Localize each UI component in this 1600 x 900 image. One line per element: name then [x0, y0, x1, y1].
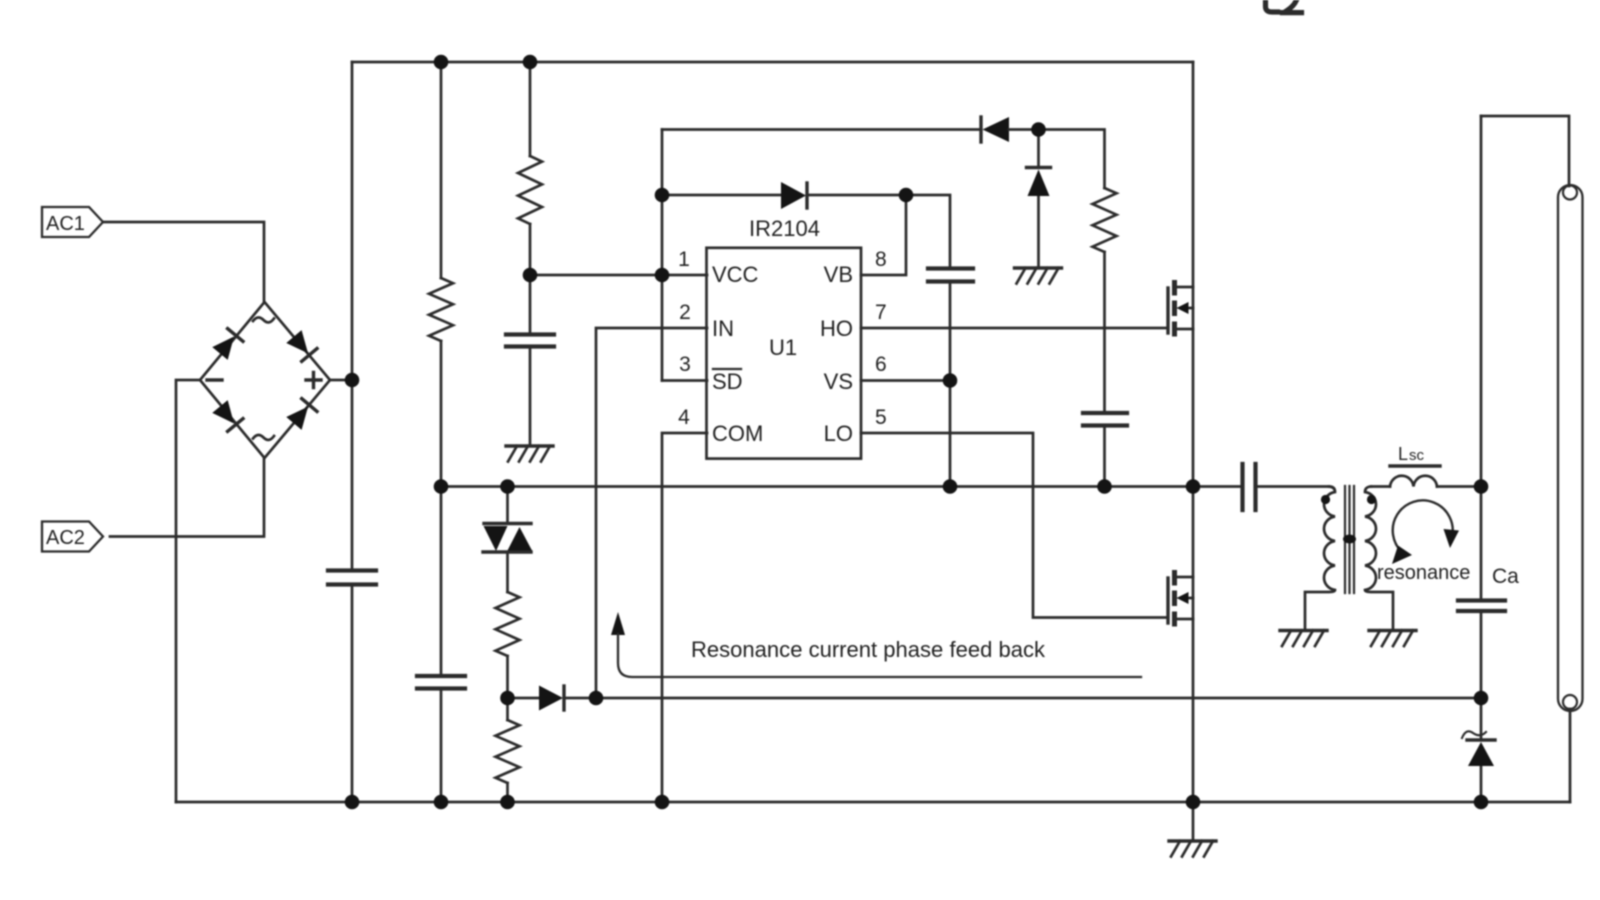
svg-text:VS: VS [824, 369, 853, 394]
bridge AC mark bottom [253, 435, 274, 440]
wire secondary to Lsc [1371, 485, 1390, 488]
node junction at 1193,486.5 [1186, 479, 1201, 494]
wire pin6 VS stub [861, 379, 950, 382]
wire pin4 COM down to ground rail [662, 433, 707, 802]
svg-text:SD: SD [712, 369, 743, 394]
node junction at 1104.5,486.5 [1097, 479, 1112, 494]
bridge diode upper-left [212, 329, 243, 360]
capacitor C5 [1083, 413, 1127, 426]
node junction at 906,195 [899, 188, 914, 203]
wire feedback line y698 [564, 697, 1481, 700]
wire node to D3 [508, 697, 539, 700]
ground below bottom rail [1169, 839, 1216, 842]
wire DIAC to R4 [506, 552, 509, 592]
svg-text:resonance: resonance [1377, 562, 1470, 584]
svg-text:VCC: VCC [712, 262, 759, 287]
wire bootstrap upper loop y129 [662, 128, 981, 131]
wire pin7 HO to M1 gate [861, 327, 1168, 330]
wire C6 to transformer primary [1256, 485, 1329, 488]
ground below Z1 [1015, 266, 1062, 269]
wire D1 to VB node and C4 [807, 195, 950, 487]
bridge plus mark [306, 373, 321, 388]
resistor R4 [496, 592, 520, 656]
zener diode Z2 (points up, curled bar) [1467, 738, 1495, 741]
wire bottom ground rail [176, 801, 1570, 804]
node junction at 1193,802 [1186, 795, 1201, 810]
node junction at 441,802 [434, 795, 449, 810]
wire R5 to bottom rail [506, 783, 509, 802]
wire VCC node to pin 1 [530, 274, 707, 277]
wire pin2 IN [596, 328, 707, 698]
bridge diode lower-left [212, 400, 243, 431]
DIAC D4 [483, 524, 531, 553]
wire y195 from x662 to D1 [662, 194, 781, 197]
transistor Q1 high-side MOSFET [1166, 288, 1169, 333]
svg-text:1: 1 [678, 248, 690, 271]
wire D2 to corner and down to R3 [1009, 130, 1105, 189]
svg-text:U1: U1 [769, 335, 797, 360]
svg-text:7: 7 [875, 301, 887, 324]
wire VCC node down to C3 [529, 275, 532, 446]
svg-text:4: 4 [678, 406, 690, 429]
wire x441 upper [440, 62, 443, 278]
node junction at 1481,802 [1474, 795, 1489, 810]
svg-text:2: 2 [679, 301, 691, 324]
inductor Lsc [1390, 476, 1437, 487]
node junction at 950,380.5 [943, 373, 958, 388]
node junction at 441,62 [434, 55, 449, 70]
transformer T1 secondary winding [1365, 487, 1393, 631]
wire x662 vertical upper (VCC/SD/bootstrap node) [661, 130, 664, 381]
feedback arrow (curved, pointing up) [611, 612, 625, 635]
node junction at 507.5,486.5 [500, 479, 515, 494]
capacitor C2 [417, 676, 465, 689]
wire pin3 SD stub [662, 379, 707, 382]
capacitor C4 bootstrap [928, 269, 973, 282]
lamp electrode top [1563, 186, 1577, 200]
capacitor C6 coupling [1243, 464, 1256, 510]
wire pin8 VB stub [861, 195, 906, 275]
node junction at 352,380 [345, 373, 360, 388]
svg-text:COM: COM [712, 421, 763, 446]
node junction at 530,275 [523, 268, 538, 283]
transformer T1 core [1345, 486, 1354, 593]
node junction at 507.5,802 [500, 795, 515, 810]
svg-text:8: 8 [875, 248, 887, 271]
wire pin5 LO to M2 gate [861, 433, 1168, 618]
wire bridge minus to bottom rail [176, 380, 200, 802]
node junction at 950,486.5 [943, 479, 958, 494]
svg-text:3: 3 [679, 353, 691, 376]
wire Lsc to lamp node [1437, 485, 1481, 488]
node junction at 530,62 [523, 55, 538, 70]
wire DC rail vertical x352 [351, 62, 354, 802]
transformer T1 secondary phase dot [1367, 495, 1376, 504]
bridge minus mark [207, 378, 222, 381]
wire mid rail (half-bridge output node) [441, 485, 1242, 488]
wire lamp left vertical x1481 [1480, 116, 1483, 802]
diode D1 (points right) [781, 182, 806, 209]
node junction at 596,698 [589, 691, 604, 706]
wire mid rail to C2 [440, 487, 443, 803]
node junction at 441,486.5 [434, 479, 449, 494]
diode D2 (points left) [983, 117, 1010, 142]
resistor R3 [1093, 188, 1117, 252]
node junction at 1038.5,129.5 [1031, 122, 1046, 137]
resonance circulating-current arrow [1393, 500, 1453, 553]
wire DIAC branch from mid rail [506, 487, 509, 524]
svg-text:LO: LO [824, 421, 853, 446]
transformer T1 primary winding [1305, 487, 1335, 631]
svg-text:VB: VB [824, 262, 853, 287]
lamp electrode bottom [1563, 695, 1577, 709]
capacitor C3 VCC bypass [506, 335, 554, 347]
op-amp / driver IC U1 IR2104 body [707, 248, 862, 459]
terminal AC1 [42, 207, 103, 237]
transformer T1 primary phase dot [1321, 495, 1330, 504]
bridge rectifier BR1 diamond [200, 302, 330, 458]
ground below primary [1280, 629, 1327, 632]
node junction at 352,802 [345, 795, 360, 810]
wire AC1 to bridge [103, 222, 264, 302]
node junction at 507.5,698 [500, 691, 515, 706]
wire x530 upper [529, 62, 532, 156]
capacitor Ca [1458, 601, 1505, 612]
wire R1 to mid rail [440, 341, 443, 487]
svg-text:5: 5 [875, 406, 887, 429]
decorative partial logo top-right [1266, 0, 1278, 12]
bridge diode lower-right [286, 399, 317, 430]
resistor R5 [496, 720, 520, 783]
svg-text:L: L [1398, 444, 1408, 464]
svg-text:IR2104: IR2104 [749, 216, 820, 241]
svg-text:6: 6 [875, 353, 887, 376]
ground below C3 [506, 444, 553, 447]
resistor R2 [518, 156, 542, 224]
label Lsc underbar [1390, 464, 1440, 467]
wire R2 to VCC node [529, 224, 532, 275]
wire zener branch [1037, 130, 1040, 268]
wire AC2 to bridge [110, 458, 264, 537]
wire top DC rail [352, 61, 1193, 64]
wire lamp bottom return [1569, 709, 1572, 802]
wire R4 to node [506, 656, 509, 720]
wire bridge plus to DC rail [330, 379, 352, 382]
ground below secondary [1369, 629, 1416, 632]
wire R3 to C5 to mid rail [1103, 252, 1106, 487]
svg-text:Ca: Ca [1492, 565, 1519, 588]
svg-text:Resonance current phase feed b: Resonance current phase feed back [691, 637, 1046, 662]
capacitor C1 bus filter [328, 571, 376, 585]
lamp tube (CCFL) [1558, 185, 1583, 711]
node junction at 662,275 [655, 268, 670, 283]
svg-text:AC1: AC1 [46, 213, 85, 235]
wire half-bridge vertical x1193 [1192, 62, 1195, 802]
node junction at 1481,486.5 [1474, 479, 1489, 494]
wire lamp top feed [1481, 116, 1569, 186]
transistor Q2 low-side MOSFET [1166, 578, 1169, 623]
wire stub to ground below rail [1192, 802, 1195, 840]
node junction at 1481,698 [1474, 691, 1489, 706]
node junction at 662,195 [655, 188, 670, 203]
svg-text:HO: HO [820, 316, 853, 341]
zener diode Z1 (points up) [1027, 166, 1051, 169]
diode D3 (points right) [539, 686, 563, 711]
svg-text:sc: sc [1409, 447, 1425, 464]
svg-text:IN: IN [712, 316, 734, 341]
resistor R1 [429, 278, 453, 341]
node junction at 662,802 [655, 795, 670, 810]
terminal AC2 [42, 522, 103, 552]
bridge diode upper-right [286, 330, 317, 361]
svg-text:AC2: AC2 [46, 527, 85, 549]
bridge AC mark top [253, 317, 274, 322]
